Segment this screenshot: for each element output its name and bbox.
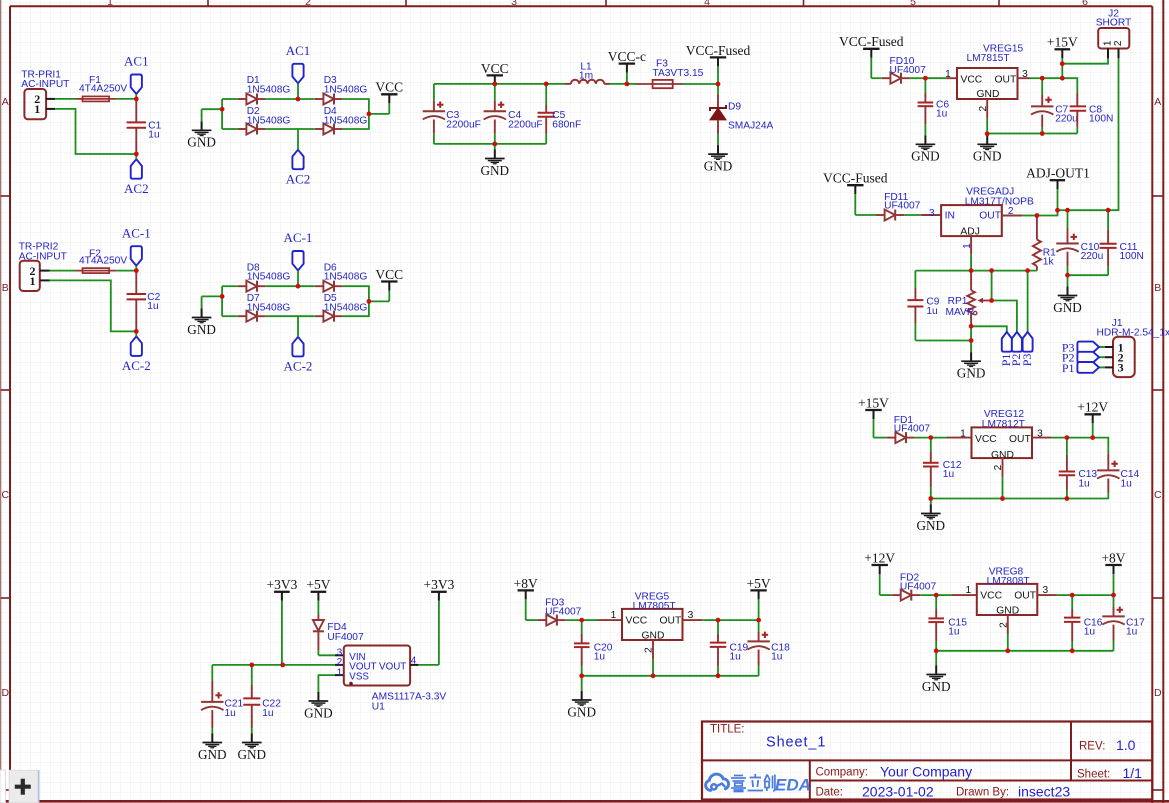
capacitor C22 1u	[243, 665, 281, 734]
wire	[1052, 437, 1067, 439]
svg-text:GND: GND	[198, 747, 227, 762]
pin 4 stub U1	[410, 656, 418, 667]
svg-text:AC-2: AC-2	[284, 359, 313, 374]
pin 1 stub U1	[335, 667, 344, 678]
ground	[187, 121, 216, 149]
svg-text:1: 1	[960, 428, 966, 439]
wire	[298, 315, 315, 317]
wire OUT jog	[1037, 210, 1058, 215]
junction pin2 bottom VREG8	[1005, 648, 1010, 653]
junction VCC/C4	[492, 82, 497, 87]
junction C4 bottom	[492, 142, 497, 147]
junction C19 bottom	[716, 673, 721, 678]
pin 3 VREG15	[1018, 77, 1031, 79]
wire	[298, 285, 315, 287]
svg-text:GND: GND	[481, 163, 510, 178]
svg-text:GND: GND	[922, 679, 951, 694]
power flag VCC-c	[608, 49, 646, 84]
net flag AC-2 bottom	[122, 336, 151, 373]
svg-text:5: 5	[910, 0, 916, 8]
svg-text:VCC: VCC	[961, 74, 983, 85]
diode D2 1N5408G	[238, 124, 266, 135]
svg-text:GND: GND	[704, 158, 733, 173]
power flag VCC	[375, 80, 403, 114]
svg-text:TA3VT3.15: TA3VT3.15	[653, 68, 704, 79]
svg-text:2: 2	[644, 647, 655, 653]
svg-text:GND: GND	[642, 630, 665, 641]
svg-text:HDR-M-2.54_1x3: HDR-M-2.54_1x3	[1097, 328, 1169, 339]
wire	[627, 83, 637, 85]
capacitor C18 1u	[747, 632, 790, 676]
svg-text:AC-1: AC-1	[122, 225, 151, 240]
inductor L1 1m	[546, 61, 609, 84]
svg-text:AC-1: AC-1	[284, 230, 313, 245]
ground C6	[911, 135, 940, 163]
wire to C8	[1062, 78, 1077, 93]
net flag AC1	[124, 54, 149, 94]
svg-text:220u: 220u	[1081, 251, 1104, 262]
svg-text:AC1: AC1	[124, 54, 149, 69]
svg-text:UF4007: UF4007	[545, 606, 582, 617]
diode D6 1N5408G	[315, 281, 343, 292]
ground VREG15	[973, 135, 1002, 164]
junction C19	[716, 618, 721, 623]
svg-text:+15V: +15V	[858, 395, 889, 410]
fuse F1	[76, 75, 128, 101]
svg-text:ADJ-OUT1: ADJ-OUT1	[1026, 166, 1090, 181]
wire	[55, 98, 75, 100]
svg-text:1N5408G: 1N5408G	[247, 303, 291, 314]
junction +5V	[756, 618, 761, 623]
svg-text:1u: 1u	[936, 109, 947, 120]
power flag VCC-Fused VREG15	[839, 34, 904, 78]
ground RP1	[957, 341, 986, 381]
junction C13 bottom	[1065, 496, 1070, 501]
svg-text:GND: GND	[973, 149, 1002, 164]
frame column ticks	[208, 0, 999, 6]
svg-text:LM7808T: LM7808T	[987, 576, 1030, 587]
svg-text:GND: GND	[1053, 300, 1082, 315]
junction C16 bottom	[1070, 648, 1075, 653]
wire	[904, 214, 921, 216]
capacitor C8 100N	[1070, 93, 1114, 134]
wire left rail	[221, 286, 223, 316]
junction VCC tap	[367, 112, 372, 117]
svg-text:LM7815T: LM7815T	[967, 53, 1010, 64]
svg-text:1m: 1m	[579, 71, 593, 82]
wire VREG8 bottom rail	[936, 650, 1113, 652]
svg-text:1: 1	[611, 610, 617, 621]
junction FD10/C6	[923, 76, 928, 81]
svg-text:VCC-Fused: VCC-Fused	[839, 34, 904, 49]
svg-text:680nF: 680nF	[552, 120, 581, 131]
svg-text:1: 1	[965, 585, 971, 596]
svg-text:100N: 100N	[1120, 251, 1144, 262]
wire J2 pin2 down	[1108, 58, 1118, 210]
regulator VREG8 LM7808T	[965, 566, 1048, 616]
frame column numbers	[107, 0, 1088, 8]
pin stub J1-1	[1099, 346, 1105, 348]
wire	[702, 619, 718, 621]
net flag AC2	[286, 150, 311, 187]
wire	[266, 285, 298, 287]
junction C20 bottom	[579, 673, 584, 678]
wire	[1067, 437, 1093, 439]
wire filter bottom rail	[434, 143, 546, 145]
wire	[222, 285, 238, 287]
junction RP1 bottom	[969, 324, 974, 329]
svg-text:Sheet_1: Sheet_1	[766, 735, 826, 751]
power flag +5V U1	[306, 577, 330, 614]
svg-text:1: 1	[34, 102, 40, 116]
EasyEDA logo	[706, 774, 811, 795]
wire	[871, 77, 882, 79]
wire to VCC	[369, 300, 389, 302]
pin 3 VREG12	[1032, 437, 1052, 439]
svg-text:2: 2	[993, 464, 1004, 470]
svg-text:2: 2	[999, 622, 1010, 628]
wire VREG12 bottom rail	[931, 498, 1109, 500]
junction FD1/C12	[928, 435, 933, 440]
wire	[1030, 77, 1042, 79]
diode D8 1N5408G	[238, 281, 266, 292]
junction C12 bottom	[928, 496, 933, 501]
svg-text:C: C	[1154, 489, 1162, 501]
svg-text:2: 2	[305, 0, 311, 8]
net flag P3	[1020, 332, 1034, 366]
pin stub J1-2	[1099, 356, 1105, 358]
junction FD2/C15	[934, 593, 939, 598]
svg-text:1u: 1u	[771, 652, 782, 663]
capacitor C11 100N	[1100, 210, 1144, 275]
junction +8V	[1111, 593, 1116, 598]
ground C22	[238, 734, 267, 762]
power flag +8V	[514, 576, 538, 620]
connector TR-PRI1 AC-INPUT	[21, 70, 69, 120]
svg-text:UF4007: UF4007	[894, 424, 931, 435]
svg-text:4: 4	[704, 0, 710, 8]
svg-text:1: 1	[945, 69, 951, 80]
wire	[318, 675, 334, 692]
svg-text:1u: 1u	[730, 652, 741, 663]
svg-text:AC2: AC2	[286, 172, 311, 187]
capacitor C3 2200uF	[423, 84, 481, 144]
diode FD3 UF4007	[538, 598, 582, 626]
svg-text:3: 3	[1118, 361, 1124, 375]
svg-text:1u: 1u	[148, 130, 159, 141]
svg-text:REV:: REV:	[1079, 741, 1105, 753]
capacitor C2 1u	[127, 271, 161, 332]
power flag +12V output	[1077, 400, 1108, 438]
svg-text:UF4007: UF4007	[327, 632, 364, 643]
junction pin2 rail	[985, 131, 990, 136]
power flag +5V output	[747, 576, 771, 620]
svg-text:GND: GND	[187, 322, 216, 337]
regulator VREG12 LM7812T	[960, 409, 1043, 461]
svg-text:1N5408G: 1N5408G	[247, 115, 291, 126]
svg-text:A: A	[1154, 96, 1161, 108]
svg-text:+15V: +15V	[1047, 35, 1078, 50]
wire	[1022, 215, 1037, 217]
wire	[266, 128, 298, 130]
connector TR-PRI2 AC-INPUT	[19, 242, 67, 291]
svg-text:1u: 1u	[926, 306, 937, 317]
capacitor C19 1u	[710, 620, 749, 676]
capacitor C21 1u	[201, 665, 243, 734]
net flag AC-1	[122, 225, 151, 265]
junction wiper	[989, 298, 994, 303]
junction C9/GND	[969, 338, 974, 343]
svg-text:+5V: +5V	[306, 577, 330, 592]
wire	[1068, 209, 1109, 211]
wire GND branch	[202, 108, 223, 110]
diode D3 1N5408G	[315, 94, 343, 105]
svg-text:1u: 1u	[147, 301, 158, 312]
net flag P1	[999, 332, 1013, 366]
svg-text:Sheet:: Sheet:	[1077, 769, 1110, 781]
svg-text:Date:: Date:	[816, 787, 844, 799]
wire pin1 VREG8	[936, 594, 952, 596]
svg-text:+8V: +8V	[514, 576, 538, 591]
junction VCC tap	[367, 299, 372, 304]
capacitor C10 220u	[1056, 210, 1103, 275]
wire	[910, 77, 926, 79]
connector J1 HDR-M-2.54_1x3	[1097, 318, 1169, 377]
svg-text:UF4007: UF4007	[900, 581, 937, 592]
svg-text:Your Company: Your Company	[880, 764, 972, 780]
junction R1 top	[1035, 213, 1040, 218]
svg-text:VCC: VCC	[975, 434, 997, 445]
capacitor C14 1u	[1097, 454, 1139, 499]
svg-text:+12V: +12V	[864, 550, 895, 565]
net flag P2	[1009, 332, 1023, 366]
capacitor C9 1u	[907, 271, 939, 341]
pin 2 stub J2	[1118, 49, 1120, 59]
svg-text:220u: 220u	[1055, 114, 1078, 125]
svg-text:P3: P3	[1020, 354, 1034, 367]
junction C5	[544, 82, 549, 87]
svg-text:B: B	[2, 282, 9, 294]
junction left rail	[220, 294, 225, 299]
wire ADJ rail	[915, 270, 1037, 272]
wire	[546, 83, 565, 85]
junction C10 bottom	[1065, 273, 1070, 278]
net flag P1	[1062, 361, 1099, 375]
svg-text:4: 4	[411, 656, 417, 667]
wire to C14	[1093, 438, 1109, 454]
frame row letters	[2, 96, 1163, 699]
wire to P3	[1027, 271, 1029, 332]
net flag P3	[1062, 340, 1099, 354]
ground	[187, 309, 216, 337]
svg-text:1u: 1u	[1126, 627, 1137, 638]
junction C22	[249, 663, 254, 668]
svg-text:1: 1	[962, 243, 973, 249]
title block	[702, 722, 1152, 800]
wire	[298, 98, 315, 100]
wire to C17	[1072, 595, 1113, 607]
net flag AC2	[124, 159, 149, 196]
wire pin1 VREG12	[931, 437, 947, 439]
wire	[874, 437, 887, 439]
svg-text:VCC: VCC	[626, 616, 648, 627]
ground D9	[704, 134, 733, 173]
junction C11	[1106, 208, 1111, 213]
svg-text:1k: 1k	[1043, 257, 1055, 268]
capacitor C4 2200uF	[484, 84, 543, 144]
wire AC1 stem	[135, 94, 137, 99]
pin 2 stub TR-PRI1	[46, 98, 55, 100]
svg-text:UF4007: UF4007	[884, 201, 921, 212]
junction pin2 bottom VREG5	[651, 673, 656, 678]
diode D7 1N5408G	[238, 311, 266, 322]
wire to P1	[971, 326, 1007, 332]
wire	[222, 98, 238, 100]
svg-text:IN: IN	[945, 211, 955, 222]
svg-text:1u: 1u	[1078, 478, 1089, 489]
regulator U1 AMS1117A-3.3V	[344, 646, 447, 713]
wire wiper to P2	[992, 301, 1017, 332]
svg-text:D: D	[1154, 687, 1162, 699]
frame row ticks	[1, 196, 1164, 790]
svg-text:1u: 1u	[594, 652, 605, 663]
wire left rail	[221, 99, 223, 129]
svg-text:1u: 1u	[262, 708, 273, 719]
junction C2/AC-2	[134, 329, 139, 334]
diode FD11 UF4007	[876, 192, 921, 221]
net flag AC1	[286, 43, 311, 83]
pin 3 stub U1	[335, 647, 344, 658]
diode FD10 UF4007	[882, 56, 926, 84]
wire VOUT rail	[212, 664, 334, 666]
junction C15 bottom	[934, 648, 939, 653]
wire	[1058, 209, 1068, 211]
svg-text:AC-INPUT: AC-INPUT	[19, 251, 67, 262]
svg-text:2: 2	[1113, 40, 1124, 46]
capacitor C20 1u	[574, 620, 613, 676]
svg-text:UF4007: UF4007	[890, 65, 927, 76]
wire	[526, 619, 538, 621]
diode FD4 UF4007 vertical	[313, 615, 364, 656]
junction P3 rail	[1025, 268, 1030, 273]
junction ADJ/RP1	[969, 268, 974, 273]
capacitor C17 1u	[1102, 607, 1145, 651]
wire pin1 VREG5	[582, 619, 598, 621]
svg-text:VSS: VSS	[349, 672, 369, 683]
capacitor C7 220u	[1031, 78, 1078, 133]
ground VREG12	[917, 499, 946, 533]
pin 1 lead ADJ	[962, 236, 973, 271]
svg-text:1u: 1u	[943, 469, 954, 480]
junction AC1	[296, 97, 301, 102]
svg-text:100N: 100N	[1089, 114, 1113, 125]
svg-text:AC2: AC2	[124, 181, 149, 196]
svg-text:GND: GND	[917, 518, 946, 533]
wire to VCC	[369, 113, 389, 115]
ground C21	[198, 734, 227, 762]
svg-text:1N5408G: 1N5408G	[324, 115, 368, 126]
junction VCC-c	[625, 82, 630, 87]
svg-text:6: 6	[1082, 0, 1088, 8]
svg-text:1/1: 1/1	[1123, 765, 1143, 781]
svg-text:D: D	[2, 687, 10, 699]
svg-text:2200uF: 2200uF	[508, 120, 543, 131]
svg-text:EDA: EDA	[775, 776, 811, 795]
wire	[683, 83, 718, 85]
wire pin4 to +3V3	[418, 664, 439, 666]
junction C10	[1065, 208, 1070, 213]
svg-text:1N5408G: 1N5408G	[324, 85, 368, 96]
svg-text:OUT: OUT	[979, 211, 1001, 222]
svg-text:C: C	[2, 489, 10, 501]
wire	[915, 437, 931, 439]
wire	[298, 128, 315, 130]
junction wiper rail	[989, 268, 994, 273]
svg-text:GND: GND	[977, 89, 1000, 100]
pin 1 stub J2	[1107, 49, 1109, 59]
svg-text:4T4A250V: 4T4A250V	[79, 255, 127, 266]
svg-text:1N5408G: 1N5408G	[247, 272, 291, 283]
svg-text:1u: 1u	[225, 708, 236, 719]
wire	[266, 98, 298, 100]
svg-text:VCC-Fused: VCC-Fused	[823, 171, 888, 186]
pin 2 VREG5	[644, 640, 655, 676]
fuse F2	[76, 249, 128, 273]
junction AC-1	[296, 284, 301, 289]
junction C13	[1065, 435, 1070, 440]
regulator VREG5 LM7805T	[611, 591, 694, 641]
svg-text:ADJ: ADJ	[960, 226, 979, 237]
svg-text:3: 3	[929, 208, 935, 219]
svg-text:1.0: 1.0	[1116, 737, 1136, 753]
diode FD1 UF4007	[887, 415, 931, 443]
capacitor C12 1u	[923, 438, 962, 499]
svg-text:3: 3	[511, 0, 517, 8]
power flag +3V3 left	[266, 577, 297, 665]
svg-text:1N5408G: 1N5408G	[324, 272, 368, 283]
diode D5 1N5408G	[315, 311, 343, 322]
svg-text:1: 1	[30, 274, 36, 288]
wire	[855, 214, 876, 216]
wire	[116, 98, 136, 100]
junction left rail	[220, 107, 225, 112]
svg-text:D9: D9	[728, 102, 741, 113]
svg-text:MAVR: MAVR	[946, 307, 975, 318]
capacitor C5 680nF	[538, 84, 582, 144]
svg-text:+8V: +8V	[1101, 550, 1125, 565]
wire VREG15 output rail	[987, 133, 1077, 135]
svg-text:1N5408G: 1N5408G	[247, 85, 291, 96]
regulator VREGADJ LM317T/NOPB	[941, 187, 1034, 238]
wire AC2 stem	[135, 154, 137, 159]
svg-text:Company:: Company:	[816, 767, 868, 779]
wire C10-C11 rail	[1068, 274, 1109, 276]
svg-text:P1: P1	[1062, 361, 1075, 375]
junction C1/AC2	[134, 152, 139, 157]
svg-text:+3V3: +3V3	[423, 577, 454, 592]
svg-text:B: B	[1154, 282, 1161, 294]
wire pin1 VREG15	[925, 77, 946, 79]
wire	[1057, 594, 1072, 596]
junction +12V	[1090, 435, 1095, 440]
svg-text:GND: GND	[957, 366, 986, 381]
pin 2 stub TR-PRI2	[40, 270, 50, 272]
junction FD3/C20	[579, 618, 584, 623]
svg-text:OUT: OUT	[660, 616, 682, 627]
wire FD4 to VIN	[318, 654, 334, 656]
svg-text:AC1: AC1	[286, 43, 311, 58]
TVS diode D9 SMAJ24A	[710, 84, 774, 134]
